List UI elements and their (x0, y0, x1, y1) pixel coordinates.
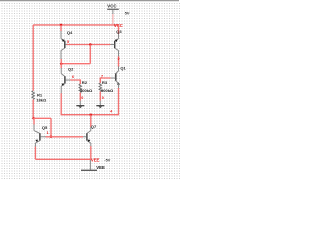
svg-text:500kΩ: 500kΩ (101, 88, 114, 93)
transistor Q3 (PNP) (110, 25, 119, 57)
grid dots (0, 2, 181, 181)
svg-text:5V: 5V (125, 11, 130, 15)
wire base Q5-Q7 (46, 136, 84, 138)
wire VEE rail (35, 158, 90, 160)
svg-text:2: 2 (118, 57, 120, 61)
transistor Q4 (PNP) (61, 25, 67, 60)
svg-text:VCC: VCC (107, 4, 117, 9)
svg-text:6: 6 (72, 75, 74, 79)
window top border (0, 0, 179, 2)
svg-text:-5V: -5V (104, 158, 110, 162)
wire net 5 (bases Q4-Q3) (67, 44, 111, 46)
wire net 1 horizontal (33, 117, 51, 119)
transistor Q2 (PNP) (61, 68, 70, 94)
svg-text:R1: R1 (37, 92, 43, 97)
resistor R3 (99, 78, 102, 105)
power VCC symbol (107, 9, 119, 24)
svg-text:1: 1 (47, 131, 49, 135)
wire Q5 emitter down (34, 147, 36, 160)
transistor Q7 (NPN) (83, 127, 91, 146)
wire junction to Q2 collector (60, 64, 62, 68)
wire net5 bottom horizontal (61, 63, 90, 65)
node junction net5 (89, 43, 92, 46)
svg-text:0: 0 (81, 96, 83, 100)
svg-text:5: 5 (67, 40, 69, 44)
svg-text:Q7: Q7 (91, 124, 97, 129)
transistor Q5 (NPN mirrored) (34, 124, 46, 146)
wire VCC net horizontal (33, 24, 118, 26)
svg-text:Q2: Q2 (68, 66, 74, 71)
ground (R3) (96, 106, 104, 109)
transistor Q1 (NPN) (111, 66, 120, 88)
node junction net4/Q7 (90, 113, 93, 116)
wire Q7 collector up (90, 115, 92, 128)
wire net 2 (Q3 collector to Q1 collector) (118, 56, 120, 66)
svg-text:0: 0 (102, 96, 104, 100)
resistor R2 (79, 84, 82, 105)
ground (R2) (76, 106, 84, 109)
svg-text:500kΩ: 500kΩ (80, 88, 93, 93)
svg-text:Q3: Q3 (116, 29, 122, 34)
svg-text:Q4: Q4 (67, 30, 73, 35)
wire Q5 collector up to junction (33, 118, 35, 124)
power VEE symbol (81, 160, 97, 171)
svg-text:Q1: Q1 (120, 66, 126, 71)
svg-text:VEE: VEE (91, 158, 100, 163)
wire Q4 collector to junction (60, 59, 62, 64)
wire Q7 emitter down (90, 146, 92, 160)
wire R1 column top (32, 90, 34, 92)
svg-text:18kΩ: 18kΩ (36, 98, 47, 103)
resistor R1 (32, 91, 35, 119)
svg-text:R3: R3 (102, 80, 108, 85)
wire VCC net left vertical (32, 25, 34, 91)
svg-text:7: 7 (101, 74, 103, 78)
node junction VCC/Q4 (60, 24, 63, 27)
wire net 1 vertical (50, 118, 52, 137)
wire Q1 emitter to rail net4 (61, 88, 118, 115)
node junction Q4C/Q2C (60, 62, 63, 64)
svg-text:VEE: VEE (96, 165, 105, 170)
svg-text:Q5: Q5 (42, 125, 48, 130)
wire net 6 (Q2 base to R2) (70, 80, 80, 84)
node junction net1/base wire (50, 136, 53, 139)
wire net5 down (89, 45, 91, 64)
wire net 7 (R3 top to Q1 base) (100, 78, 110, 83)
node junction R1/Q5C/net1 (32, 117, 35, 120)
svg-text:R2: R2 (82, 80, 88, 85)
